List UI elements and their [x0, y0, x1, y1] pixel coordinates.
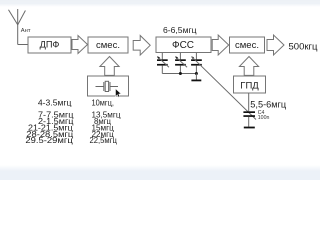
wire ГПД to C4 [248, 93, 250, 111]
capacitor C4 [243, 111, 255, 126]
ground 2 [244, 127, 255, 129]
block смес. U2 [230, 37, 265, 53]
svg-text:5,5-6мгц: 5,5-6мгц [250, 99, 287, 109]
antenna [9, 9, 26, 45]
block ГПД [234, 76, 266, 93]
wire antenna to ДПФ [18, 44, 28, 46]
svg-text:22,5мгц: 22,5мгц [90, 136, 118, 145]
arrow 2 [133, 36, 150, 56]
svg-text:500кгц: 500кгц [289, 41, 318, 52]
svg-text:ДПФ: ДПФ [40, 40, 60, 50]
svg-text:10мгц,: 10мгц, [92, 99, 114, 108]
up arrow 2 (ГПД to смес U2) [239, 57, 258, 76]
svg-text:6-6,5мгц: 6-6,5мгц [163, 25, 197, 35]
ground 1 [191, 74, 201, 82]
block ФСС [156, 37, 211, 53]
svg-text:смес.: смес. [96, 40, 120, 51]
arrow 1 [72, 36, 88, 54]
svg-text:Ант: Ант [21, 28, 31, 34]
wire bus under trimmers [162, 73, 196, 75]
trimmer capacitor 2 [175, 53, 187, 74]
svg-text:ФСС: ФСС [172, 40, 194, 51]
svg-text:смес.: смес. [235, 40, 259, 51]
ganged tuning line to C4 [192, 57, 256, 120]
svg-text:100n: 100n [258, 115, 270, 121]
block смес. U1 [88, 37, 128, 53]
trimmer capacitor 3 [191, 53, 202, 74]
junction node 1 [179, 72, 182, 75]
block ДПФ [28, 37, 71, 53]
svg-text:29.5-29мгц: 29.5-29мгц [25, 136, 73, 145]
svg-text:4-3.5мгц: 4-3.5мгц [38, 99, 72, 108]
mouse cursor [116, 89, 122, 97]
arrow 4 [267, 35, 284, 55]
junction node 2 [195, 72, 198, 75]
arrow 3 [212, 35, 229, 55]
up arrow 1 (crystal to смес U1) [100, 57, 119, 76]
svg-text:ГПД: ГПД [240, 80, 259, 91]
trimmer capacitor 1 [157, 53, 169, 74]
crystal oscillator box [88, 76, 129, 96]
frequency list column 2 [90, 99, 122, 145]
frequency list column 1 [25, 99, 74, 145]
